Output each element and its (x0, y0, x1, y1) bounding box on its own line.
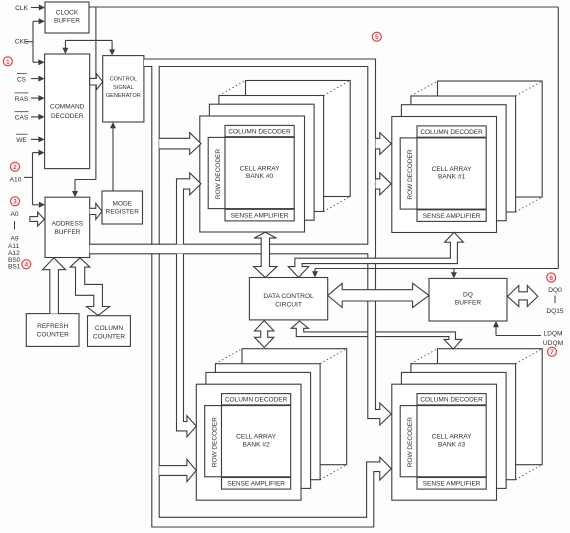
svg-text:CONTROL: CONTROL (110, 77, 137, 83)
svg-text:ADDRESS: ADDRESS (52, 221, 84, 228)
wire control bus branch: left vertical run, bottom run, arrow into bank3 sense amp side (152, 66, 391, 527)
row decoder of bank #1 (400, 138, 417, 209)
wire mode register to control signal generator (112, 127, 114, 191)
svg-text:1: 1 (6, 59, 10, 66)
sense amplifier of bank #2 (222, 478, 291, 490)
address buffer block (45, 197, 90, 257)
arrow into bank0 row decoder from left bus (159, 133, 201, 155)
circled number 2 (11, 162, 20, 171)
svg-text:CLOCK: CLOCK (56, 10, 79, 17)
wire CLK input (31, 7, 40, 9)
cell array bank layer 4 (back) of bank #2 (242, 349, 347, 465)
wire CS input (31, 78, 39, 80)
double arrow between data control circuit and bank2 (255, 321, 274, 348)
dotted perspective lines of bank #1 (411, 81, 438, 96)
arrow into bank0 lower (address lines) (177, 173, 202, 244)
svg-text:7: 7 (550, 349, 554, 356)
svg-text:COLUMN DECODER: COLUMN DECODER (420, 397, 483, 404)
dotted perspective lines of bank #0 (219, 81, 246, 96)
svg-text:ROW DECODER: ROW DECODER (212, 417, 219, 468)
svg-text:CELL ARRAY: CELL ARRAY (432, 166, 473, 173)
svg-text:DQ15: DQ15 (546, 308, 564, 315)
wire clock distribution from clock buffer (89, 6, 558, 8)
svg-text:BANK #3: BANK #3 (438, 441, 465, 448)
circled number 5 (372, 32, 381, 41)
arrow channel between data control circuit bottom and bank3 top (291, 321, 462, 349)
wire clock to DQ buffer (453, 269, 455, 274)
svg-text:DECODER: DECODER (51, 113, 84, 120)
svg-text:UDQM: UDQM (543, 340, 563, 347)
svg-text:CLK: CLK (15, 5, 28, 12)
svg-text:CELL ARRAY: CELL ARRAY (240, 165, 281, 172)
svg-text:A11: A11 (8, 243, 20, 250)
svg-text:SENSE AMPLIFIER: SENSE AMPLIFIER (227, 481, 285, 488)
cell array of bank #1 (417, 138, 486, 209)
svg-text:DATA CONTROL: DATA CONTROL (263, 293, 314, 300)
svg-text:CELL ARRAY: CELL ARRAY (432, 434, 473, 441)
cell array bank layer 3 of bank #3 (411, 364, 516, 480)
mode register block (102, 191, 143, 224)
svg-text:SENSE AMPLIFIER: SENSE AMPLIFIER (231, 213, 289, 220)
svg-text:COMMAND: COMMAND (50, 103, 85, 110)
svg-text:CAS: CAS (15, 115, 29, 122)
column decoder of bank #2 (222, 394, 291, 405)
wire CAS input (31, 116, 39, 118)
svg-text:BANK #1: BANK #1 (438, 174, 465, 181)
arrow refresh counter to address buffer (43, 258, 66, 314)
svg-text:DQ0: DQ0 (548, 287, 562, 294)
wire control bus from control signal generator: top run and right vertical run, arrow into bank3 row decoder (144, 59, 391, 425)
wire WE input (31, 138, 39, 140)
svg-text:A0: A0 (10, 211, 18, 218)
svg-text:CS: CS (17, 76, 27, 83)
arrow into bank2 sense amp side from left bus (159, 459, 196, 481)
cell array bank layer 2 of bank #3 (401, 372, 506, 488)
column counter block (88, 316, 131, 347)
svg-text:CIRCUIT: CIRCUIT (275, 302, 302, 309)
arrow command decoder to control signal generator (90, 74, 103, 90)
dotted perspective lines of bank #3 (411, 349, 438, 364)
svg-text:RAS: RAS (15, 96, 29, 103)
cell array bank layer 4 (back) of bank #0 (246, 81, 351, 197)
cell array bank layer 4 (back) of bank #3 (438, 349, 543, 465)
row decoder of bank #0 (208, 137, 225, 208)
wire clock to data control circuit (314, 269, 316, 273)
svg-text:LDQM: LDQM (543, 331, 562, 338)
command decoder block (45, 54, 90, 169)
arrow into bank1 lower from right bus (376, 173, 392, 195)
svg-text:CKE: CKE (15, 39, 29, 46)
bank #3 front block (392, 384, 497, 500)
svg-text:CELL ARRAY: CELL ARRAY (236, 434, 277, 441)
row decoder of bank #3 (400, 406, 417, 477)
svg-text:REFRESH: REFRESH (37, 323, 68, 330)
circled number 1 (3, 57, 12, 66)
svg-text:COUNTER: COUNTER (93, 334, 125, 341)
svg-text:BANK #0: BANK #0 (246, 173, 273, 180)
cell array of bank #2 (222, 406, 291, 477)
wire LDQM UDQM to DQ buffer (496, 335, 541, 337)
arrow address inputs into address buffer (30, 212, 45, 226)
cell array bank layer 4 (back) of bank #1 (438, 81, 543, 197)
svg-text:GENERATOR: GENERATOR (106, 93, 141, 99)
svg-text:5: 5 (375, 34, 379, 41)
svg-text:SENSE AMPLIFIER: SENSE AMPLIFIER (423, 481, 481, 488)
svg-text:2: 2 (13, 164, 17, 171)
refresh counter block (26, 314, 79, 347)
svg-text:WE: WE (16, 137, 27, 144)
double arrow DQ buffer to DQ pins (508, 286, 538, 307)
column decoder of bank #1 (417, 126, 486, 137)
row decoder of bank #2 (205, 406, 222, 477)
clock buffer block (45, 2, 89, 33)
svg-text:A9: A9 (10, 236, 18, 243)
double arrow between bank0 sense amplifier and data control circuit (254, 232, 277, 277)
cell array bank layer 2 of bank #1 (401, 105, 506, 221)
cell array bank layer 3 of bank #1 (411, 96, 516, 212)
svg-text:REGISTER: REGISTER (106, 209, 140, 216)
column decoder of bank #3 (417, 394, 486, 405)
svg-text:SIGNAL: SIGNAL (113, 85, 134, 91)
cell array of bank #3 (417, 406, 486, 477)
dotted perspective lines of bank #2 (215, 349, 242, 364)
wire A10 input (24, 176, 33, 178)
bank #1 front block (392, 117, 497, 233)
wire clock to control signal generator (95, 7, 97, 180)
svg-text:BUFFER: BUFFER (455, 300, 482, 307)
circled number 7 (548, 347, 557, 356)
sense amplifier of bank #3 (417, 478, 486, 490)
svg-text:COLUMN: COLUMN (95, 325, 123, 332)
svg-text:DQ: DQ (463, 291, 473, 298)
svg-text:ROW DECODER: ROW DECODER (407, 417, 414, 468)
control signal generator block (103, 56, 144, 122)
data control circuit block (249, 278, 327, 320)
svg-text:ROW DECODER: ROW DECODER (407, 149, 414, 200)
svg-text:SENSE AMPLIFIER: SENSE AMPLIFIER (423, 213, 481, 220)
svg-text:BANK #2: BANK #2 (243, 441, 270, 448)
double arrow column counter to address buffer (70, 258, 109, 316)
cell array of bank #0 (225, 137, 294, 208)
wire clock to address buffer (75, 179, 96, 181)
double arrow between bank1 sense amplifier and data control circuit (288, 232, 463, 277)
svg-text:BS1: BS1 (8, 263, 21, 270)
svg-text:MODE: MODE (113, 201, 133, 208)
svg-text:COUNTER: COUNTER (37, 332, 69, 339)
sense amplifier of bank #0 (225, 209, 294, 221)
svg-text:A10: A10 (10, 176, 22, 183)
label vertical bar (14, 221, 16, 230)
svg-text:4: 4 (24, 262, 28, 269)
wire CKE input (26, 41, 34, 43)
svg-text:3: 3 (13, 199, 17, 206)
column decoder of bank #0 (225, 125, 294, 136)
cell array bank layer 2 of bank #2 (206, 372, 311, 488)
svg-text:COLUMN DECODER: COLUMN DECODER (420, 129, 483, 136)
cell array bank layer 3 of bank #2 (215, 364, 320, 480)
sense amplifier of bank #1 (417, 210, 486, 222)
svg-text:BUFFER: BUFFER (54, 229, 80, 236)
bank #0 front block (200, 116, 305, 232)
cell array bank layer 3 of bank #0 (219, 96, 324, 212)
svg-text:BUFFER: BUFFER (54, 18, 80, 25)
circled number 6 (547, 273, 556, 282)
arrow into bank2 row decoder (address lines) (177, 254, 197, 437)
DQ buffer block (429, 278, 507, 321)
svg-text:6: 6 (549, 275, 553, 282)
bank #2 front block (196, 384, 301, 500)
arrow address buffer to mode register (90, 203, 102, 219)
svg-text:COLUMN DECODER: COLUMN DECODER (225, 397, 288, 404)
svg-text:COLUMN DECODER: COLUMN DECODER (228, 128, 291, 135)
svg-text:ROW DECODER: ROW DECODER (215, 149, 222, 200)
circled number 3 (11, 197, 20, 206)
wire RAS input (31, 97, 39, 99)
cell array bank layer 2 of bank #0 (209, 104, 314, 220)
wire address bus from address buffer (90, 245, 375, 254)
circled number 4 (22, 260, 31, 269)
double arrow between data control circuit and DQ buffer (328, 283, 429, 307)
arrow into bank1 row decoder from right bus (376, 133, 392, 155)
